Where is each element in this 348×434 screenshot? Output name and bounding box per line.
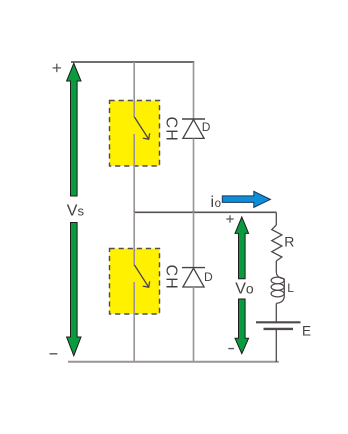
svg-text:io: io	[211, 194, 221, 211]
output current arrow io (blue, right)	[222, 191, 270, 207]
svg-text:D: D	[204, 270, 213, 284]
wire: middle branch upper lead into CH1	[133, 62, 135, 118]
wire: diode branch to middle wire	[193, 138, 195, 212]
wire: load branch top corner	[275, 212, 277, 225]
bottom wire	[68, 361, 279, 363]
battery E	[256, 322, 301, 329]
diode D2	[182, 268, 205, 287]
chopper switch box CH1 (yellow dashed)	[110, 101, 160, 167]
switch arm CH2	[134, 265, 149, 287]
minus sign (Vo)	[228, 348, 234, 350]
wire: E to bottom wire	[275, 330, 277, 362]
svg-text:D: D	[202, 120, 211, 134]
svg-text:Vo: Vo	[235, 281, 254, 298]
middle wire (node between halves)	[134, 211, 277, 213]
wire: R to L	[275, 261, 277, 272]
wire: diode branch below middle wire	[193, 212, 195, 268]
top wire	[71, 61, 194, 63]
plus sign (Vs)	[53, 64, 61, 72]
diode D1	[182, 119, 205, 138]
wire: CH2 lower lead down to bottom wire	[133, 282, 135, 362]
output voltage arrow Vo lower (green, down)	[235, 299, 249, 354]
svg-text:CH: CH	[163, 117, 180, 143]
resistor R	[272, 225, 282, 261]
chopper switch box CH2 (yellow dashed)	[110, 249, 160, 315]
plus sign (Vo)	[226, 215, 233, 222]
svg-text:E: E	[302, 324, 311, 339]
svg-text:L: L	[287, 281, 294, 295]
source arrow Vs lower (green, down)	[67, 223, 81, 356]
svg-text:R: R	[284, 233, 294, 249]
wire: L to E	[275, 303, 277, 321]
switch arm CH1	[134, 117, 149, 139]
wire: CH1 lower lead down to middle wire	[133, 134, 135, 212]
source arrow Vs upper (green, up)	[67, 63, 81, 196]
inductor L (coil)	[271, 272, 284, 304]
wire: diode branch upper	[193, 62, 195, 119]
minus sign (Vs)	[50, 353, 58, 355]
output voltage arrow Vo upper (green, up)	[235, 217, 249, 279]
svg-text:CH: CH	[163, 265, 180, 291]
wire: middle branch lead into CH2	[133, 212, 135, 266]
wire: diode branch to bottom wire	[193, 287, 195, 362]
svg-text:Vs: Vs	[67, 202, 85, 219]
